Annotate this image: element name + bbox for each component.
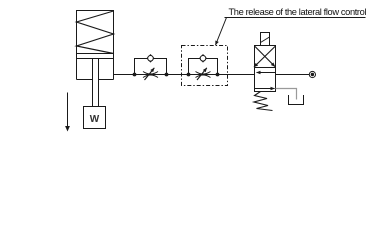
svg-text:The release of the lateral flo: The release of the lateral flow control xyxy=(229,7,367,17)
svg-text:W: W xyxy=(90,114,100,125)
